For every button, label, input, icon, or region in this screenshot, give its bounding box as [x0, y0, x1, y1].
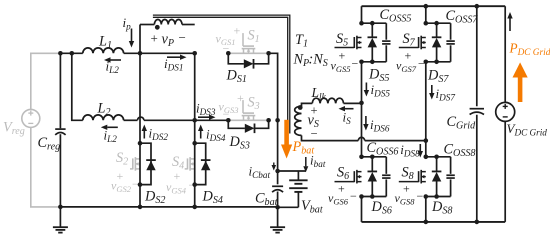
- wire CGrid lower: [476, 115, 478, 222]
- diode DS3: [245, 124, 255, 133]
- current arrow iDS7: [431, 85, 433, 93]
- wire S5 leg top: [361, 6, 363, 23]
- wire box left: [139, 25, 141, 54]
- node L2 tap: [70, 51, 75, 56]
- wire bat vertical: [277, 120, 279, 171]
- capacitor COSS8: [446, 174, 454, 176]
- capacitor COSS6: [382, 174, 390, 176]
- wire box top right: [182, 24, 195, 26]
- wire Cbat lower: [277, 192, 279, 208]
- wire battery bottom: [278, 206, 299, 208]
- ground battery: [277, 207, 279, 227]
- diode DS3 branch: [228, 120, 245, 128]
- wire S8 cell top: [426, 156, 451, 158]
- current arrow iDS5: [365, 83, 367, 91]
- wire battery branch top: [278, 170, 306, 172]
- diode DS1: [244, 59, 254, 68]
- wire S5S6 leg mid: [361, 103, 363, 157]
- current arrow ibat: [305, 157, 307, 166]
- svg-text:−: −: [352, 57, 359, 71]
- wire bottom rail primary: [60, 206, 277, 208]
- current arrow iDS6: [365, 116, 367, 124]
- wire S7 cell top: [426, 22, 451, 24]
- node S8 bottom: [424, 194, 429, 199]
- node S3 right: [266, 118, 271, 123]
- capacitor Cbat: [272, 185, 283, 187]
- node S2 rail: [138, 205, 143, 210]
- diode DS2 branch: [140, 143, 151, 184]
- mosfet S6: [357, 171, 362, 173]
- node S4 top: [192, 141, 197, 146]
- power arrow PDCGrid: [518, 77, 523, 102]
- wire row B with hop over S2 leg: [138, 117, 144, 120]
- wire S6 leg bottom: [361, 197, 363, 222]
- wire bottom rail secondary: [362, 221, 506, 223]
- voltage source Vreg: [22, 109, 40, 127]
- current arrow ip: [131, 29, 133, 42]
- wire S3 gray section: [228, 119, 268, 121]
- current arrow iDS8: [419, 144, 421, 151]
- capacitor CGrid: [470, 108, 484, 110]
- diode DS4 branch: [195, 143, 206, 184]
- transformer primary winding: [154, 20, 182, 25]
- node S7 top: [424, 21, 429, 26]
- node S6 top: [359, 155, 364, 160]
- current arrow iCbat: [273, 163, 275, 166]
- svg-text:+: +: [403, 182, 410, 196]
- node S8 rail: [424, 220, 429, 225]
- wire box top left: [140, 24, 154, 26]
- capacitor COSS7: [446, 40, 454, 42]
- wire gray top from Vreg: [31, 53, 61, 109]
- svg-text:+: +: [338, 182, 345, 196]
- svg-text:−: −: [311, 127, 318, 141]
- capacitor Creg: [55, 128, 65, 130]
- wire S5 cell bottom: [362, 61, 387, 63]
- diode DS6: [368, 170, 378, 172]
- current arrow iDS3: [198, 116, 209, 118]
- svg-text:−: −: [418, 57, 425, 71]
- node S4 bottom: [192, 182, 197, 187]
- wire row B left: [124, 119, 138, 121]
- inductor Llk: [312, 98, 343, 103]
- wire CGrid upper: [476, 6, 478, 106]
- svg-text:+: +: [234, 24, 241, 38]
- node box top-left: [138, 51, 143, 56]
- node S2 bottom: [138, 182, 143, 187]
- wire S5 cell top: [362, 22, 387, 24]
- transformer core line inner: [153, 17, 288, 133]
- capacitor branch S5: [385, 23, 387, 40]
- mosfet S4: [190, 158, 195, 160]
- battery Vbat: [297, 171, 299, 180]
- transformer core line outer: [153, 15, 290, 133]
- current arrow iDS2: [143, 131, 145, 139]
- transformer secondary winding: [295, 106, 302, 135]
- node Creg bottom: [58, 205, 63, 210]
- current arrow iL2: [107, 126, 118, 128]
- svg-text:+: +: [117, 169, 124, 183]
- polarity dot primary: [155, 25, 160, 30]
- svg-text:+: +: [151, 31, 158, 46]
- svg-text:−: −: [179, 30, 186, 45]
- diode branch S5: [371, 23, 373, 37]
- wire S6 cell top: [362, 156, 387, 158]
- node box bottom-right: [192, 51, 197, 56]
- wire gray bottom from Vreg: [31, 127, 61, 206]
- wire S2 leg upper: [139, 53, 141, 143]
- current arrow iS: [345, 108, 354, 110]
- diode branch S7: [436, 23, 438, 37]
- node S7 bottom: [424, 60, 429, 65]
- wire top rail: [362, 5, 506, 7]
- node S4 row B: [192, 118, 197, 123]
- wire S8 leg top: [425, 141, 427, 157]
- wire S1 gray section: [228, 52, 268, 54]
- current arrow grid: [509, 19, 511, 32]
- svg-text:+: +: [405, 49, 412, 63]
- node transformer midpoint: [359, 101, 364, 106]
- node S8 midpoint: [424, 138, 429, 143]
- diode DS1 branch: [228, 53, 244, 64]
- node S3 left: [226, 118, 231, 123]
- wire S7 cell bottom: [426, 61, 451, 63]
- node CGrid top rail: [475, 4, 480, 9]
- wire row A left: [60, 52, 82, 54]
- mosfet S8: [421, 171, 426, 173]
- mosfet S5: [357, 37, 362, 39]
- node Creg top: [58, 51, 63, 56]
- wire Llk to leg: [344, 102, 362, 104]
- wire secondary bottom with hop: [302, 135, 359, 140]
- node CGrid rail: [475, 220, 480, 225]
- node bat bottom: [275, 205, 280, 210]
- node S6 bottom: [359, 194, 364, 199]
- wire Creg lower: [59, 134, 61, 207]
- current arrow iDS1: [167, 56, 180, 58]
- node S8 top: [424, 155, 429, 160]
- diode branch S6: [371, 157, 373, 172]
- node bat top: [275, 169, 280, 174]
- capacitor COSS5: [382, 40, 390, 42]
- diode DS5: [368, 36, 378, 38]
- diode DS2: [146, 159, 156, 161]
- svg-text:−: −: [350, 189, 357, 203]
- node S1 right: [266, 51, 271, 56]
- current arrow iL1: [111, 59, 122, 61]
- polarity dot secondary: [298, 105, 303, 110]
- wire S4 leg: [194, 143, 196, 207]
- wire S8 cell bottom: [426, 196, 451, 198]
- wire S6 cell bottom: [362, 196, 387, 198]
- wire to L2: [72, 53, 83, 120]
- wire S7 leg top: [425, 6, 427, 23]
- inductor L2: [83, 115, 124, 120]
- mosfet S1: [243, 49, 245, 54]
- diode DS8: [432, 170, 442, 172]
- wire Creg upper: [59, 53, 61, 128]
- capacitor branch S6: [385, 157, 387, 174]
- power arrow Pbat: [284, 120, 289, 145]
- wire S1 to bat corner: [269, 53, 278, 121]
- voltage source VDCGrid: [496, 102, 515, 121]
- node S2 top: [138, 141, 143, 146]
- node bat row B: [275, 118, 280, 123]
- node S1 left: [226, 51, 231, 56]
- wire S4 leg upper: [194, 53, 196, 143]
- wire S7 leg mid: [425, 62, 427, 141]
- mosfet S2: [135, 158, 140, 160]
- wire S5 leg to midpoint: [361, 62, 363, 103]
- wire row A box bottom: [140, 52, 195, 54]
- svg-text:+: +: [339, 49, 346, 63]
- wire secondary top: [302, 103, 313, 106]
- svg-text:−: −: [417, 189, 424, 203]
- node S5 bottom: [359, 60, 364, 65]
- inductor L1: [83, 48, 124, 53]
- wire row A mid: [124, 52, 140, 54]
- node S7 top rail: [424, 4, 429, 9]
- svg-text:+: +: [174, 169, 181, 183]
- ground left: [59, 207, 61, 227]
- mosfet S3: [243, 116, 245, 121]
- wire VDC lower: [504, 121, 506, 221]
- wire VDC upper: [504, 6, 506, 102]
- current arrow iDS4: [200, 131, 202, 139]
- diode DS4: [201, 159, 211, 161]
- wire row B right: [195, 119, 229, 121]
- diode DS7: [432, 36, 442, 38]
- wire S8 leg bottom: [425, 197, 427, 222]
- node S5 top: [359, 21, 364, 26]
- wire S2 leg: [139, 143, 141, 207]
- wire Cbat upper: [277, 171, 279, 184]
- capacitor branch S7: [450, 23, 452, 40]
- mosfet S7: [421, 37, 426, 39]
- diode branch S8: [436, 157, 438, 172]
- svg-text:+: +: [237, 91, 244, 105]
- capacitor branch S8: [450, 157, 452, 174]
- node S4 rail: [192, 205, 197, 210]
